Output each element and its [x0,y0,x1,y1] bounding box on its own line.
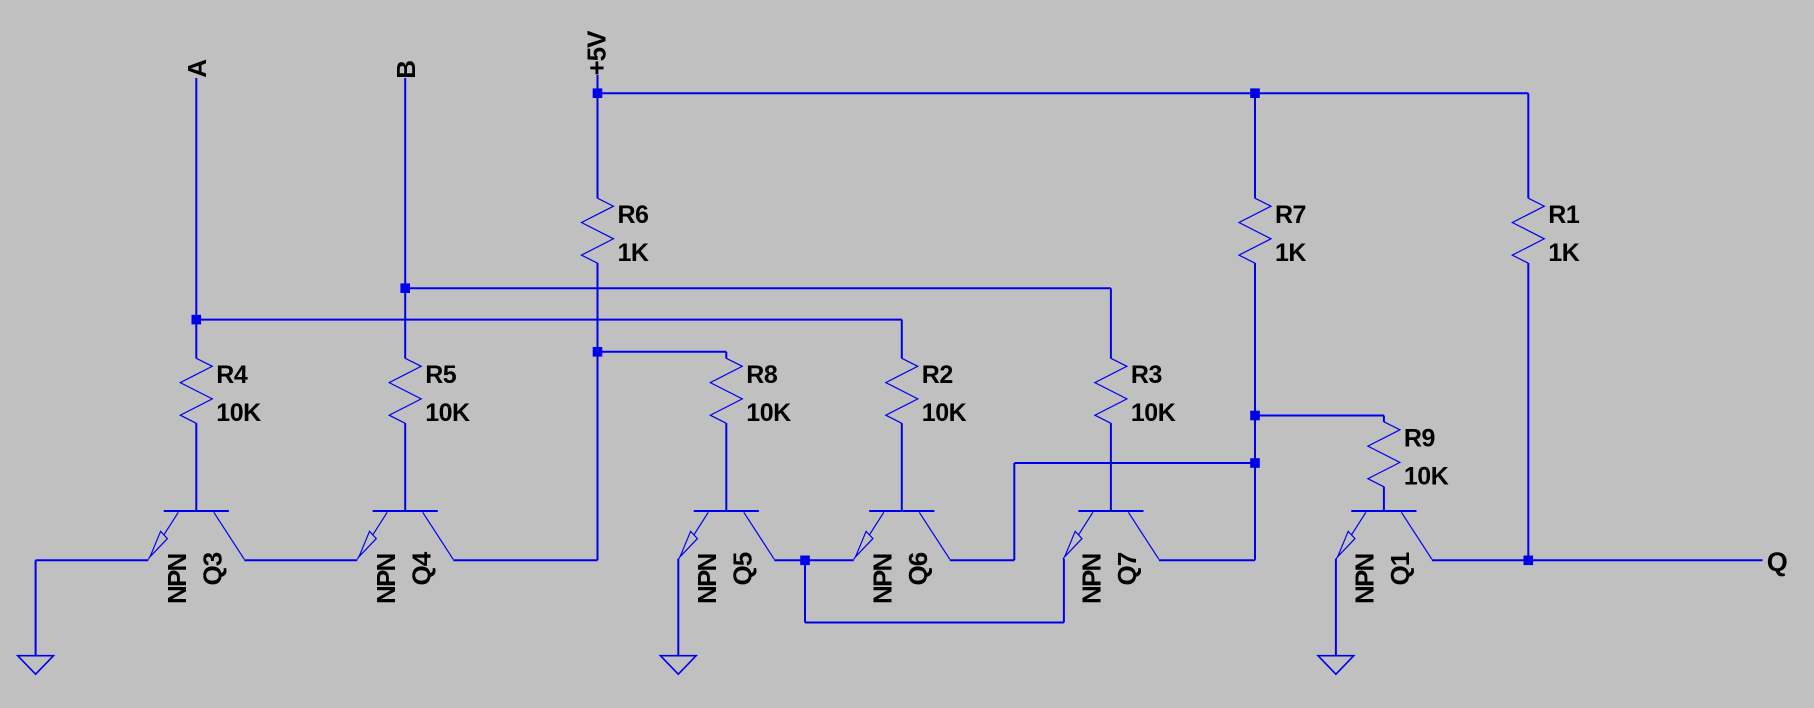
node junction R7 vertical / Q6 collector row [1250,458,1260,468]
transistor Q6 (NPN) [854,511,950,604]
wire left ground vertical [35,560,37,655]
wire R6 bottom vertical to Q4 collector row [597,263,599,560]
transistor Q7 (NPN) [1063,511,1159,604]
svg-text:B: B [391,61,421,79]
svg-text:10K: 10K [1131,399,1176,427]
resistor R8 10K [710,358,791,427]
svg-text:R3: R3 [1131,361,1162,389]
svg-text:NPN: NPN [1077,553,1107,604]
wire Q6 collector short horizontal [950,559,1015,561]
resistor R7 1K [1239,198,1306,267]
wire link vertical down from Q5C node [804,560,806,622]
wire Q1 collector to output Q [1432,559,1763,561]
wire R8 bottom to Q5 base [725,423,727,511]
resistor R5 10K [389,358,470,427]
wire Q6 collector row to R7 vertical [1014,462,1255,464]
resistor R2 10K [886,358,967,427]
wire +5V lead down to R6 [597,75,599,198]
resistor R4 10K [180,358,261,427]
svg-text:R2: R2 [922,361,953,389]
wire B input vertical [404,78,406,359]
transistor Q5 (NPN) [678,511,774,604]
wire B row horizontal to R3 column [405,287,1111,289]
wire Q3 emitter row to left [36,559,149,561]
node junction top rail / R7 [1250,88,1260,98]
wire R6 tap row horizontal to R8 column [598,351,727,353]
wire R9 top lead vertical [1383,416,1385,423]
wire R5 bottom to Q4 base [404,423,406,511]
wire R8 top lead vertical [725,352,727,359]
transistor Q1 (NPN) [1336,511,1432,604]
resistor R9 10K [1368,422,1449,491]
wire Q7 collector to R7 vertical [1159,559,1255,561]
wire R2 bottom to Q6 base [901,423,903,511]
node junction B / feedback row [400,283,410,293]
svg-text:R1: R1 [1548,201,1580,229]
wire R7 bottom vertical to Q7 collector row [1254,263,1256,560]
resistor R3 10K [1095,358,1176,427]
wire A input vertical [195,78,197,359]
wire R1 top lead [1527,93,1529,198]
wire Q6 collector vertical up [1013,463,1015,560]
svg-text:R7: R7 [1275,201,1306,229]
svg-text:Q7: Q7 [1112,552,1142,585]
svg-text:10K: 10K [1404,462,1449,490]
svg-text:R5: R5 [425,361,457,389]
svg-text:R9: R9 [1404,425,1435,453]
svg-text:10K: 10K [746,399,791,427]
wire +5V top rail horizontal [598,92,1529,94]
resistor R6 1K [582,198,649,267]
svg-text:+5V: +5V [582,30,612,76]
svg-text:NPN: NPN [692,553,722,604]
wire Q3 collector to Q4 emitter [244,559,357,561]
wire A row horizontal to R2 column [196,319,902,321]
node junction Q5 collector / link [800,556,810,566]
wire R3 bottom to Q7 base [1110,423,1112,511]
svg-text:Q4: Q4 [407,551,437,585]
node junction A / feedback row [192,315,202,325]
wire R9 bottom to Q1 base [1383,487,1385,511]
wire link vertical up to Q7 emitter [1063,559,1065,623]
wire Q1 emitter vertical to ground [1335,559,1337,656]
wire link row horizontal [805,622,1064,624]
wire R7/R9 row horizontal [1255,415,1384,417]
svg-text:Q3: Q3 [198,552,228,585]
ground (Q3 emitter) [18,656,54,675]
wire R7 top lead [1254,93,1256,198]
node junction +5V / top rail [593,88,603,98]
resistor R1 1K [1512,198,1580,267]
svg-text:NPN: NPN [868,553,898,604]
ground (Q1 emitter) [1318,656,1354,675]
wire R2 top lead vertical [901,320,903,359]
svg-text:1K: 1K [1275,239,1306,267]
svg-text:NPN: NPN [371,553,401,604]
svg-text:NPN: NPN [162,553,192,604]
svg-text:Q1: Q1 [1385,552,1415,585]
transistor Q3 (NPN) [148,511,244,604]
node junction R6 bottom / R8 tap row [593,347,603,357]
svg-text:10K: 10K [216,399,261,427]
svg-text:R6: R6 [618,201,649,229]
svg-text:R8: R8 [746,361,778,389]
svg-text:Q5: Q5 [728,552,758,585]
transistor Q4 (NPN) [357,511,453,604]
wire R4 bottom to Q3 base [195,423,197,511]
wire Q5 emitter vertical to ground [677,559,679,656]
svg-text:R4: R4 [216,361,248,389]
node junction R1 bottom / output row [1524,556,1534,566]
svg-text:Q: Q [1767,547,1788,577]
ground (Q5 emitter) [660,656,696,675]
svg-text:1K: 1K [618,239,649,267]
svg-text:1K: 1K [1548,239,1579,267]
svg-text:Q6: Q6 [903,552,933,585]
svg-text:A: A [182,59,212,78]
svg-text:10K: 10K [922,399,967,427]
node junction R7 bottom / R9 row [1250,411,1260,421]
wire Q4 collector to R6 bottom [453,559,597,561]
svg-text:10K: 10K [425,399,470,427]
svg-text:NPN: NPN [1350,553,1380,604]
wire Q5 collector to Q6 emitter [774,559,854,561]
wire R3 top lead vertical [1110,288,1112,358]
wire R1 bottom vertical to output row [1527,263,1529,560]
